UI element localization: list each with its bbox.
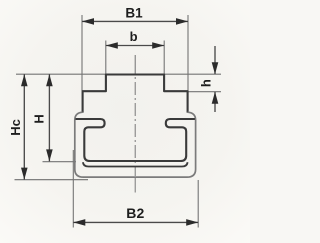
svg-text:Hc: Hc xyxy=(8,119,23,136)
extension line B2 right xyxy=(197,180,199,228)
svg-text:B1: B1 xyxy=(125,5,143,20)
dimension Hc line xyxy=(23,74,25,179)
extension line top (block top level, shared by H, Hc, h) xyxy=(16,73,221,75)
dimension b arrow right xyxy=(152,42,164,49)
groove floor second (offset) line xyxy=(83,162,188,166)
centerline (vertical dash-dot) xyxy=(134,55,136,75)
dimension H arrow bottom xyxy=(46,149,53,161)
dimension h upper segment (arrow points down to block-top line) xyxy=(214,46,216,74)
svg-text:b: b xyxy=(130,29,138,44)
profile lips and groove inner contour xyxy=(76,119,195,161)
dimension H arrow top xyxy=(46,74,53,86)
extension line b right xyxy=(163,41,165,75)
dimension B2 arrow right xyxy=(186,219,198,226)
dimension b line xyxy=(106,45,164,47)
extension line B2 left xyxy=(72,150,74,228)
extension line B1 left xyxy=(81,15,83,91)
dimension B2 line xyxy=(73,221,198,223)
dimension B2 arrow left xyxy=(73,219,85,226)
dimension h lower segment (arrow points up to shoulder line) xyxy=(214,92,216,112)
extension line B1 right xyxy=(187,15,189,91)
dimension Hc arrow top xyxy=(21,74,28,86)
svg-text:H: H xyxy=(32,114,47,123)
dimension h upper arrow xyxy=(212,62,219,74)
extension line shoulder right (for h) xyxy=(188,91,221,93)
svg-text:h: h xyxy=(199,79,214,87)
dimension B1 line xyxy=(82,20,188,22)
dimension B1 arrow right xyxy=(176,18,188,25)
extension line Hc bottom (profile bottom level) xyxy=(15,179,89,181)
extension line H bottom (groove floor level) xyxy=(43,161,77,163)
dimension B1 arrow left xyxy=(82,18,94,25)
dimension H line xyxy=(48,74,50,161)
extension line b left xyxy=(105,41,107,75)
svg-text:B2: B2 xyxy=(126,205,144,221)
dimension h lower arrow xyxy=(212,92,219,104)
profile head outline (T-head: top block + shoulders) xyxy=(83,75,188,113)
dimension b arrow left xyxy=(106,42,118,49)
dimension Hc arrow bottom xyxy=(21,168,28,180)
profile channel outer wall and bottom (lighter outline) xyxy=(75,112,196,177)
